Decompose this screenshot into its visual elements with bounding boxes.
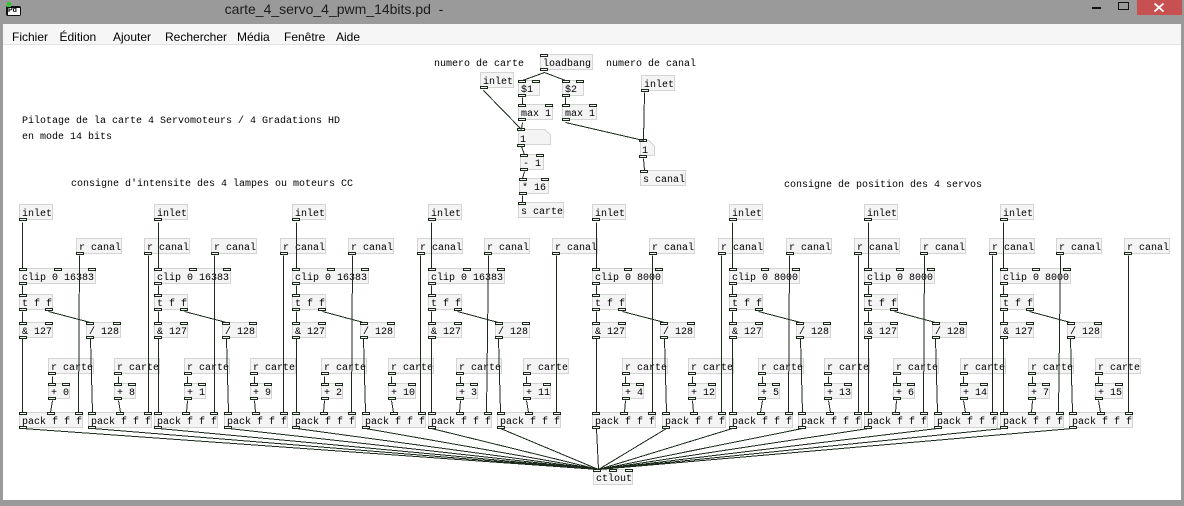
object loadbang — [540, 54, 593, 70]
wire t f f->& 127 U1 — [22, 312, 24, 323]
wire t f f->/ 128 U1 — [49, 312, 91, 323]
object r carte U1B — [114, 358, 160, 374]
object + 6 U7A — [893, 383, 915, 399]
object pack f f f U1A — [19, 412, 83, 428]
wire & 127->pack A U1 — [22, 339, 24, 413]
object / 128 U1 — [86, 322, 121, 338]
object + 3 U4A — [456, 383, 478, 399]
wire max 1->number box (carte) — [522, 123, 523, 130]
object & 127 U6 — [729, 322, 763, 338]
object r canal U1A — [76, 238, 122, 254]
wire r canal A->pack A U7 — [924, 256, 925, 413]
wire clip->t f f U1 — [22, 286, 24, 295]
wire r canal B->pack B U1 — [148, 256, 150, 413]
object / 128 U7 — [932, 322, 967, 338]
wire r carte A->+ 0 U1 — [52, 377, 54, 384]
object pack f f f U6A — [729, 412, 793, 428]
wire + 10->pack B U3 — [392, 401, 394, 413]
object inlet (canal) — [641, 75, 675, 91]
object t f f U5 — [592, 294, 626, 310]
wire + 2->pack A U3 — [324, 401, 325, 413]
wire & 127->pack A U4 — [431, 339, 433, 413]
object r carte U8B — [1095, 358, 1141, 374]
object inlet U3 — [292, 204, 326, 220]
wire clip->t f f U2 — [158, 286, 160, 295]
wire inlet->clip U8 — [1003, 223, 1005, 269]
close button — [1137, 0, 1182, 15]
close button X glyph — [1154, 3, 1164, 12]
object pack f f f U3A — [292, 412, 356, 428]
object & 127 U2 — [154, 322, 188, 338]
wire t f f->& 127 U4 — [431, 312, 433, 323]
wire / 128->pack B U3 — [364, 339, 366, 413]
wire + 7->pack A U8 — [1032, 401, 1033, 413]
object t f f U7 — [864, 294, 898, 310]
wire / 128->pack B U2 — [227, 339, 229, 413]
object t f f U4 — [428, 294, 462, 310]
object pack f f f U4A — [428, 412, 492, 428]
wire / 128->pack B U6 — [801, 339, 803, 413]
comment 'Pilotage...' — [22, 116, 340, 128]
comment 'consigne d'intensite...' — [71, 179, 353, 191]
object r canal U7A — [920, 238, 966, 254]
object pack f f f U2A — [154, 412, 218, 428]
object pack f f f U8B — [1069, 412, 1133, 428]
wire + 3->pack A U4 — [460, 401, 461, 413]
wire number box->- 1 — [522, 147, 525, 155]
object max 1 (left) — [518, 104, 553, 120]
object pack f f f U6B — [798, 412, 862, 428]
comment 'consigne de position...' — [784, 180, 982, 192]
wire pack B->ctlout U1 — [93, 429, 599, 470]
object clip 0 8000 U7 — [864, 268, 935, 284]
object r canal U7B — [989, 238, 1035, 254]
object / 128 U5 — [660, 322, 695, 338]
object r carte U6B — [824, 358, 870, 374]
wire loadbang->$1 — [523, 73, 545, 81]
wire r canal A->pack A U4 — [487, 256, 489, 413]
object inlet U1 — [19, 204, 53, 220]
wire * 16->s carte — [522, 196, 524, 203]
object t f f U6 — [729, 294, 763, 310]
object clip 0 8000 U5 — [592, 268, 663, 284]
menu item Fichier — [12, 30, 48, 44]
wire pack A->ctlout U1 — [23, 429, 599, 470]
object inlet (carte) — [480, 72, 514, 88]
object pack f f f U4B — [497, 412, 561, 428]
wire r carte B->+ 15 U8 — [1098, 377, 1100, 384]
wire + 13->pack B U6 — [829, 401, 831, 413]
wire r canal B->pack B U5 — [721, 256, 723, 413]
message $2 — [562, 80, 584, 96]
wire inlet->clip U1 — [22, 223, 24, 269]
object r canal U2B — [280, 238, 326, 254]
wire pack B->ctlout U8 — [599, 429, 1073, 470]
wire pack A->ctlout U7 — [599, 429, 869, 470]
wire inlet->clip U4 — [431, 223, 433, 269]
wire clip->t f f U4 — [431, 286, 433, 295]
object r carte U4B — [523, 358, 569, 374]
object & 127 U1 — [19, 322, 53, 338]
number box 1 (carte) — [518, 129, 551, 145]
wire r canal A->pack A U3 — [352, 256, 353, 413]
object r canal U1B — [144, 238, 190, 254]
wire pack B->ctlout U5 — [599, 429, 667, 470]
wire r canal B->pack B U4 — [556, 256, 558, 413]
wire t f f->/ 128 U3 — [323, 312, 364, 323]
wire r carte B->+ 12 U5 — [692, 377, 694, 384]
object / 128 U2 — [222, 322, 257, 338]
object + 15 U8B — [1095, 383, 1123, 399]
object clip 0 16383 U3 — [292, 268, 369, 284]
object pack f f f U8A — [1000, 412, 1064, 428]
wire t f f->/ 128 U7 — [895, 312, 936, 323]
object s canal — [640, 170, 686, 186]
object t f f U1 — [19, 294, 53, 310]
object r canal U3B — [417, 238, 463, 254]
object r carte U1A — [48, 358, 94, 374]
object clip 0 8000 U6 — [729, 268, 800, 284]
wire t f f->& 127 U5 — [596, 312, 598, 323]
wire r canal B->pack B U8 — [1128, 256, 1130, 413]
wire + 12->pack B U5 — [693, 401, 694, 413]
wire + 0->pack A U1 — [51, 401, 53, 413]
wire inlet->clip U6 — [732, 223, 734, 269]
wire r carte A->+ 6 U7 — [896, 377, 898, 384]
object & 127 U3 — [292, 322, 326, 338]
object + 13 U6B — [824, 383, 852, 399]
wire pack B->ctlout U6 — [599, 429, 803, 470]
wire number box->s canal — [644, 159, 645, 171]
maximize button — [1118, 2, 1129, 10]
object r canal U4A — [484, 238, 530, 254]
object inlet U7 — [864, 204, 898, 220]
wire inlet->clip U3 — [296, 223, 298, 269]
wire t f f->/ 128 U8 — [1030, 312, 1071, 323]
menu bar — [3, 24, 1181, 45]
wire r carte A->+ 2 U3 — [324, 377, 326, 384]
wire pack A->ctlout U3 — [297, 429, 599, 470]
wire t f f->& 127 U3 — [296, 312, 298, 323]
object + 12 U5B — [688, 383, 716, 399]
object pack f f f U5A — [592, 412, 656, 428]
wire r carte B->+ 13 U6 — [828, 377, 830, 384]
object r canal U3A — [348, 238, 394, 254]
wire loadbang->$2 — [545, 73, 566, 81]
window title text — [0, 1, 668, 17]
number box 1 (canal) — [640, 140, 655, 156]
object r carte U7B — [960, 358, 1006, 374]
wire r carte B->+ 11 U4 — [526, 377, 528, 384]
object clip 0 8000 U8 — [1000, 268, 1071, 284]
object r carte U2B — [250, 358, 296, 374]
wire r canal A->pack A U5 — [652, 256, 654, 413]
object r carte U5A — [622, 358, 668, 374]
object + 9 U2B — [250, 383, 272, 399]
wire & 127->pack A U6 — [732, 339, 734, 413]
object r canal U5B — [718, 238, 764, 254]
comment 'numero de canal' — [606, 59, 696, 71]
wire clip->t f f U6 — [732, 286, 734, 295]
wire clip->t f f U3 — [296, 286, 298, 295]
object & 127 U4 — [428, 322, 462, 338]
wire r canal B->pack B U6 — [858, 256, 860, 413]
object t f f U2 — [154, 294, 188, 310]
wire + 5->pack A U6 — [761, 401, 763, 413]
wire r canal B->pack B U7 — [992, 256, 994, 413]
object + 1 U2A — [184, 383, 206, 399]
object r carte U3B — [388, 358, 434, 374]
wire t f f->& 127 U6 — [732, 312, 734, 323]
wire + 15->pack B U8 — [1099, 401, 1101, 413]
wire clip->t f f U7 — [868, 286, 870, 295]
object + 11 U4B — [523, 383, 551, 399]
wire r carte B->+ 8 U1 — [118, 377, 120, 384]
wire & 127->pack A U3 — [296, 339, 298, 413]
wire + 11->pack B U4 — [527, 401, 529, 413]
object + 5 U6A — [758, 383, 780, 399]
object r carte U7A — [893, 358, 939, 374]
object r canal U8B — [1124, 238, 1170, 254]
object pack f f f U1B — [88, 412, 152, 428]
wire r carte A->+ 7 U8 — [1032, 377, 1034, 384]
object r carte U4A — [456, 358, 502, 374]
wire $1->max 1 — [522, 98, 524, 105]
wire & 127->pack A U2 — [158, 339, 160, 413]
wire r carte A->+ 1 U2 — [187, 377, 189, 384]
object + 8 U1B — [114, 383, 136, 399]
wire pack B->ctlout U3 — [366, 429, 599, 470]
wire & 127->pack A U8 — [1003, 339, 1005, 413]
object clip 0 16383 U4 — [428, 268, 505, 284]
object + 14 U7B — [960, 383, 988, 399]
wire $2->max 1 — [565, 98, 567, 105]
object r canal U4B — [552, 238, 598, 254]
wire r carte B->+ 9 U2 — [254, 377, 256, 384]
object r canal U6A — [786, 238, 832, 254]
object pack f f f U5B — [662, 412, 726, 428]
wire inlet->clip U5 — [596, 223, 598, 269]
wire pack A->ctlout U8 — [599, 429, 1004, 470]
wire t f f->/ 128 U6 — [759, 312, 801, 323]
object clip 0 16383 U2 — [154, 268, 231, 284]
object r carte U8A — [1028, 358, 1074, 374]
wire r carte A->+ 5 U6 — [762, 377, 764, 384]
wire & 127->pack A U5 — [596, 339, 598, 413]
wire pack A->ctlout U2 — [159, 429, 599, 470]
object & 127 U7 — [864, 322, 898, 338]
object / 128 U8 — [1067, 322, 1102, 338]
object r carte U3A — [321, 358, 367, 374]
object inlet U5 — [592, 204, 626, 220]
menu item Édition — [60, 30, 97, 44]
object + 10 U3B — [388, 383, 416, 399]
wire - 1->* 16 — [523, 172, 525, 179]
wire / 128->pack B U1 — [91, 339, 93, 413]
wire & 127->pack A U7 — [868, 339, 870, 413]
minimize button — [1092, 7, 1101, 9]
object + 2 U3A — [321, 383, 343, 399]
wire t f f->& 127 U8 — [1003, 312, 1005, 323]
wire t f f->/ 128 U5 — [623, 312, 665, 323]
wire pack A->ctlout U4 — [432, 429, 599, 470]
object s carte — [518, 202, 564, 218]
comment 'en mode 14 bits' — [22, 132, 112, 144]
wire t f f->& 127 U7 — [868, 312, 870, 323]
object t f f U3 — [292, 294, 326, 310]
Pd application icon — [6, 6, 21, 16]
object & 127 U8 — [1000, 322, 1034, 338]
object - 1 — [520, 154, 544, 170]
wire pack B->ctlout U4 — [501, 429, 599, 470]
object + 7 U8A — [1028, 383, 1050, 399]
object t f f U8 — [1000, 294, 1034, 310]
comment 'numero de carte' — [434, 59, 524, 71]
object r canal U6B — [854, 238, 900, 254]
object inlet U6 — [729, 204, 763, 220]
object + 0 U1A — [48, 383, 70, 399]
wire + 1->pack A U2 — [187, 401, 188, 413]
wire r carte A->+ 4 U5 — [625, 377, 627, 384]
object inlet U4 — [428, 204, 462, 220]
wire / 128->pack B U4 — [499, 339, 501, 413]
wire t f f->/ 128 U4 — [458, 312, 499, 323]
object * 16 — [519, 178, 549, 194]
wire + 4->pack A U5 — [625, 401, 626, 413]
wire r carte A->+ 3 U4 — [460, 377, 462, 384]
object ctlout — [593, 469, 633, 485]
wire inlet(canal)->number box — [644, 93, 645, 141]
wire r canal A->pack A U1 — [79, 256, 80, 413]
object & 127 U5 — [592, 322, 626, 338]
wire r canal A->pack A U2 — [214, 256, 216, 413]
wire / 128->pack B U8 — [1071, 339, 1073, 413]
object inlet U2 — [154, 204, 188, 220]
wire / 128->pack B U7 — [936, 339, 938, 413]
wire r carte B->+ 14 U7 — [963, 377, 965, 384]
object max 1 (right) — [562, 104, 597, 120]
object r carte U2A — [184, 358, 230, 374]
menu item Ajouter — [113, 30, 151, 44]
object + 4 U5A — [622, 383, 644, 399]
object / 128 U3 — [360, 322, 395, 338]
wire r canal B->pack B U3 — [420, 256, 422, 413]
wire inlet->clip U2 — [158, 223, 160, 269]
wire r carte B->+ 10 U3 — [391, 377, 393, 384]
object r canal U5A — [649, 238, 695, 254]
wire + 9->pack B U2 — [255, 401, 256, 413]
wire max 1->number box (canal) — [566, 123, 644, 141]
menu item Rechercher — [165, 30, 227, 44]
wire pack B->ctlout U7 — [599, 429, 938, 470]
object r canal U8A — [1056, 238, 1102, 254]
wire + 8->pack B U1 — [119, 401, 121, 413]
object inlet U8 — [1000, 204, 1034, 220]
wire inlet(carte)->number box — [484, 91, 522, 130]
wire r canal B->pack B U2 — [283, 256, 285, 413]
wire clip->t f f U5 — [596, 286, 598, 295]
object clip 0 16383 U1 — [19, 268, 96, 284]
wire pack A->ctlout U5 — [597, 429, 599, 470]
object / 128 U6 — [796, 322, 831, 338]
wire pack B->ctlout U2 — [229, 429, 599, 470]
object r carte U6A — [758, 358, 804, 374]
wire + 14->pack B U7 — [964, 401, 966, 413]
wire t f f->/ 128 U2 — [185, 312, 227, 323]
menu item Aide — [336, 30, 360, 44]
menu item Fenêtre — [284, 30, 325, 44]
window title bar — [0, 0, 1184, 24]
object pack f f f U3B — [362, 412, 426, 428]
wire t f f->& 127 U2 — [158, 312, 160, 323]
menu item Média — [237, 30, 270, 44]
wire + 6->pack A U7 — [896, 401, 897, 413]
wire inlet->clip U7 — [868, 223, 870, 269]
object r carte U5B — [688, 358, 734, 374]
object pack f f f U7A — [864, 412, 928, 428]
wire clip->t f f U8 — [1003, 286, 1005, 295]
wire pack A->ctlout U6 — [599, 429, 733, 470]
wire r canal A->pack A U8 — [1059, 256, 1061, 413]
object r canal U2A — [211, 238, 257, 254]
object pack f f f U2B — [224, 412, 288, 428]
object / 128 U4 — [495, 322, 530, 338]
message $1 — [518, 80, 540, 96]
wire r canal A->pack A U6 — [789, 256, 790, 413]
object pack f f f U7B — [934, 412, 998, 428]
wire / 128->pack B U5 — [665, 339, 667, 413]
